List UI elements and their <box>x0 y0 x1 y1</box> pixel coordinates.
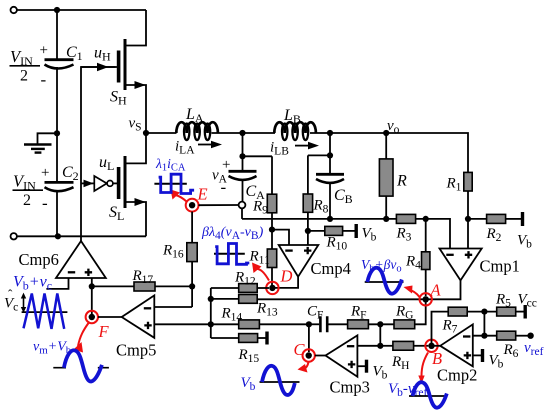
junction R13 column <box>208 296 214 302</box>
svg-text:Vb+vc: Vb+vc <box>13 274 52 293</box>
svg-text:A: A <box>430 281 442 300</box>
svg-text:vm+Vb: vm+Vb <box>33 340 72 357</box>
svg-text:R: R <box>396 173 407 190</box>
op-amp Cmp5 <box>116 295 211 359</box>
node vS <box>143 130 149 136</box>
resistor R7 <box>432 307 497 346</box>
label VIN/2 top <box>10 43 48 90</box>
node D <box>252 263 293 295</box>
junction R5-R7 <box>481 309 487 315</box>
svg-text:2: 2 <box>20 68 28 85</box>
svg-text:βλ4(vA-vB): βλ4(vA-vB) <box>201 225 264 242</box>
junction RF-RG <box>377 321 383 327</box>
wire gate drive <box>81 67 119 241</box>
svg-text:R7: R7 <box>442 318 458 336</box>
wire left column upper <box>56 10 58 59</box>
op-amp Cmp3 <box>326 335 381 396</box>
svg-text:+: + <box>41 165 49 181</box>
label iLA with arrow <box>175 139 222 157</box>
op-amp Cmp6 <box>19 241 106 317</box>
svg-text:RF: RF <box>350 304 367 322</box>
op-amp Cmp2 <box>432 324 497 384</box>
junction top rail <box>54 7 60 13</box>
junction R16-R17 <box>189 283 195 289</box>
wire CA terminal to rail <box>241 208 243 219</box>
resistor R1 <box>446 172 473 248</box>
svg-text:Cmp4: Cmp4 <box>311 259 351 278</box>
wire RF-RG junction down <box>379 324 381 346</box>
junction R10 <box>305 228 311 234</box>
node C <box>294 340 315 373</box>
svg-text:R14: R14 <box>221 306 243 324</box>
svg-text:Cmp3: Cmp3 <box>330 378 370 397</box>
svg-text:iLA: iLA <box>175 139 195 157</box>
node F <box>74 311 110 353</box>
svg-text:Vb: Vb <box>517 233 532 251</box>
svg-text:R2: R2 <box>486 226 502 244</box>
resistor R4 <box>405 219 430 296</box>
capacitor CA <box>229 156 266 202</box>
op-amp Cmp1 <box>426 249 520 300</box>
svg-text:RH: RH <box>391 354 409 372</box>
svg-text:Vb: Vb <box>241 375 256 393</box>
svg-text:C1: C1 <box>66 44 83 63</box>
svg-text:R5: R5 <box>495 292 511 310</box>
svg-text:Cmp1: Cmp1 <box>480 257 520 276</box>
wire C2 to bottom rail <box>56 190 58 236</box>
svg-text:CB: CB <box>334 187 353 206</box>
capacitor C1 <box>45 44 83 69</box>
resistor R3 <box>396 214 451 248</box>
svg-text:E: E <box>197 185 208 204</box>
capacitor CB <box>316 155 353 219</box>
svg-text:R17: R17 <box>132 268 154 286</box>
wire R7 junction down <box>483 312 485 336</box>
svg-text:LA: LA <box>185 106 204 125</box>
junction node vA top <box>239 130 245 136</box>
square wave iCA <box>154 174 194 193</box>
resistor R14 <box>211 306 309 329</box>
resistor R <box>379 133 407 219</box>
svg-text:R3: R3 <box>396 226 412 244</box>
svg-text:SH: SH <box>110 89 127 108</box>
resistor R2 <box>468 212 523 244</box>
svg-text:R10: R10 <box>326 235 348 253</box>
svg-text:R6: R6 <box>503 342 519 360</box>
svg-text:VIN: VIN <box>10 47 33 68</box>
svg-text:R4: R4 <box>405 254 421 272</box>
resistor R5 <box>495 292 525 319</box>
svg-text:LB: LB <box>283 107 301 126</box>
svg-text:Vb: Vb <box>362 226 377 244</box>
junction vA tee <box>239 153 245 159</box>
svg-text:-: - <box>42 194 48 213</box>
junction R9-R11 <box>269 227 275 233</box>
transistor SL <box>109 133 146 236</box>
label Vb sine at C <box>241 366 300 395</box>
svg-text:R13: R13 <box>256 301 278 319</box>
svg-text:+: + <box>222 157 230 173</box>
wire C to Cmp3 <box>315 355 326 357</box>
junction CB-rail <box>327 216 333 222</box>
wire F to Cmp5 <box>98 316 122 318</box>
svg-text:R12: R12 <box>234 270 256 288</box>
svg-text:Vb: Vb <box>489 353 504 371</box>
resistor RH <box>380 341 428 372</box>
inverter uL <box>81 176 119 191</box>
resistor RG <box>394 299 426 328</box>
svg-text:D: D <box>280 267 293 286</box>
svg-text:R15: R15 <box>238 347 260 365</box>
input terminal bottom <box>11 233 17 239</box>
sine wave vm <box>53 350 109 381</box>
resistor RF <box>348 304 397 329</box>
svg-text:ˆ: ˆ <box>8 287 13 302</box>
svg-text:C: C <box>294 340 306 359</box>
square wave at D <box>214 244 249 265</box>
svg-text:Cmp2: Cmp2 <box>437 366 477 385</box>
label VIN/2 bottom <box>13 165 50 213</box>
wire vA tee <box>243 133 273 156</box>
svg-text:RG: RG <box>395 304 413 322</box>
svg-text:Vb: Vb <box>373 364 388 382</box>
label vA with plus minus <box>212 157 230 197</box>
wire LB to vo to R1 <box>310 133 468 172</box>
junction CF <box>306 321 312 327</box>
svg-text:-: - <box>221 178 227 197</box>
svg-text:R9: R9 <box>252 199 268 217</box>
resistor R17 <box>92 268 192 291</box>
svg-text:C2: C2 <box>62 164 79 183</box>
wire feedback rail <box>242 218 396 220</box>
resistor R8 <box>303 155 328 245</box>
svg-text:F: F <box>98 322 110 341</box>
svg-text:R16: R16 <box>162 243 184 261</box>
wire LA to LB <box>212 132 276 134</box>
node B <box>418 340 442 384</box>
junction ground tap <box>54 130 60 136</box>
svg-text:uH: uH <box>94 45 111 64</box>
resistor R13 <box>211 295 426 319</box>
wire top rail <box>17 9 146 11</box>
inductor LB <box>274 107 316 140</box>
input terminal top <box>11 7 17 13</box>
sine wave at B <box>409 382 447 407</box>
terminal CA bottom <box>239 202 246 209</box>
svg-text:R1: R1 <box>446 176 462 194</box>
wire C1 to C2 <box>56 67 58 182</box>
junction RH <box>377 343 383 349</box>
svg-text:VIN: VIN <box>13 172 36 193</box>
svg-text:vS: vS <box>129 116 142 134</box>
capacitor C2 <box>45 164 79 191</box>
svg-text:SL: SL <box>109 204 124 223</box>
resistor R16 <box>162 243 197 308</box>
ground <box>24 133 57 152</box>
svg-text:-: - <box>41 70 47 89</box>
junction R-rail <box>383 216 389 222</box>
sine wave at A <box>365 268 404 294</box>
svg-text:vref: vref <box>524 340 544 358</box>
wire vS to LA <box>146 132 177 134</box>
junction R14 column <box>208 321 214 327</box>
resistor R11 <box>249 230 277 288</box>
svg-text:vo: vo <box>387 118 400 136</box>
junction bottom rail <box>55 233 61 239</box>
svg-text:CF: CF <box>307 304 323 322</box>
inductor LA <box>176 106 218 140</box>
wire E down to R16 <box>191 212 193 243</box>
junction CB tee <box>327 152 333 158</box>
svg-text:R8: R8 <box>313 198 329 216</box>
transistor SH <box>81 10 146 133</box>
junction R4-rail <box>423 216 429 222</box>
junction LB out <box>327 130 333 136</box>
resistor R12 <box>211 270 269 293</box>
wire bottom rail <box>17 235 146 237</box>
wire CB tee <box>308 133 330 155</box>
resistor R9 <box>252 156 277 229</box>
wire E to CA terminal <box>199 204 239 206</box>
junction Cmp6 plus <box>89 283 95 289</box>
op-amp Cmp4 <box>272 230 351 288</box>
wire input lattice column <box>210 288 212 338</box>
resistor R6 <box>497 331 534 360</box>
svg-text:uL: uL <box>99 154 114 173</box>
resistor R15 <box>211 332 267 366</box>
svg-text:Vcc: Vcc <box>518 292 537 310</box>
resistor R10 <box>308 224 356 253</box>
svg-text:Cmp6: Cmp6 <box>19 250 59 269</box>
wire CF down to C <box>308 324 310 352</box>
label iLB with arrow <box>270 140 319 158</box>
svg-text:Cmp5: Cmp5 <box>116 341 156 360</box>
junction R6 <box>481 333 487 339</box>
node vo <box>383 130 389 136</box>
svg-text:+: + <box>40 43 48 59</box>
carrier triangle wave <box>4 287 67 329</box>
capacitor CF <box>307 304 348 333</box>
node A <box>404 281 442 306</box>
junction R1-R2 <box>465 216 471 222</box>
svg-text:λ1iCA: λ1iCA <box>155 156 186 174</box>
node E <box>171 185 208 212</box>
svg-text:2: 2 <box>23 192 31 209</box>
svg-text:iLB: iLB <box>270 140 289 158</box>
